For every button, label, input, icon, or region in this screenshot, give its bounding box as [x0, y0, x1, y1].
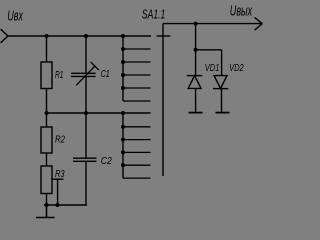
- node junction bus/main: [121, 34, 125, 38]
- wire C2 bottom lead: [85, 161, 87, 205]
- wire VD2 upper lead: [221, 50, 223, 76]
- diode VD2: [213, 76, 228, 89]
- wire bottom rail: [44, 204, 87, 206]
- wire VD2 lower lead: [221, 89, 223, 113]
- node junction C1-C2/tap: [84, 111, 88, 115]
- ground: [36, 205, 55, 218]
- output terminal arrow: [255, 17, 263, 30]
- node junction R1/main: [45, 34, 49, 38]
- wire main input y=36: [8, 35, 151, 37]
- node junction VD1/VD2: [194, 48, 198, 52]
- resistor R1: [41, 62, 52, 89]
- capacitor C1 (variable): [71, 62, 99, 85]
- wire R3 trimmer tap: [52, 179, 64, 205]
- svg-text:SA1.1: SA1.1: [142, 6, 165, 21]
- wire VD1 upper lead: [195, 24, 197, 76]
- wire divider tap y=113: [47, 112, 151, 114]
- svg-text:C1: C1: [101, 69, 110, 80]
- svg-text:R1: R1: [55, 70, 63, 81]
- wire R3 bottom lead: [46, 194, 48, 206]
- wire output y=23.6: [163, 23, 262, 25]
- node junction diode branch: [194, 22, 198, 26]
- svg-text:Uвых: Uвых: [230, 3, 253, 19]
- svg-text:R3: R3: [55, 169, 65, 180]
- input terminal arrow: [1, 29, 8, 43]
- diode VD1: [187, 76, 203, 89]
- switch SA1.1 lower bus: [122, 113, 124, 178]
- resistor R2: [41, 127, 52, 153]
- wire R2-R3: [46, 153, 48, 166]
- switch SA1.1 upper bus: [122, 36, 124, 101]
- node junction bus/tap wire: [121, 111, 125, 115]
- svg-text:C2: C2: [101, 156, 112, 167]
- switch SA1.1 wiper contact: [156, 35, 170, 37]
- wire R1 top lead: [46, 36, 48, 62]
- switch SA1.1 common line: [162, 24, 164, 176]
- svg-text:VD1: VD1: [205, 63, 220, 74]
- node junction R3/ground: [45, 203, 49, 207]
- node junction C1/main: [84, 34, 88, 38]
- wire VD1 lower lead: [195, 88, 197, 112]
- ground VD1: [189, 112, 203, 114]
- svg-text:R2: R2: [55, 135, 65, 146]
- capacitor C2: [73, 158, 97, 161]
- wire cross to VD2: [196, 49, 222, 51]
- svg-text:VD2: VD2: [229, 63, 244, 74]
- resistor R3: [41, 166, 52, 194]
- node dots upper bus: [121, 47, 125, 90]
- svg-text:Uвх: Uвх: [7, 7, 23, 24]
- wire C1 top lead: [85, 36, 87, 73]
- ground VD2: [216, 112, 230, 114]
- node junction tap/rail: [56, 203, 60, 207]
- switch SA1.1 lower contacts: [123, 127, 151, 178]
- node dots lower bus: [121, 125, 125, 167]
- wire C1-C2: [85, 76, 87, 158]
- wire R1-R2: [46, 89, 48, 128]
- switch SA1.1 upper contacts: [123, 49, 151, 101]
- node junction R divider tap: [45, 111, 49, 115]
